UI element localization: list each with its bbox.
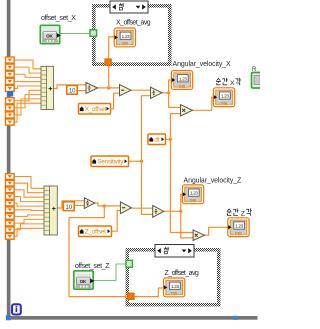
wire subtract2 output to divide2Z top input (131, 207, 152, 209)
indicator instant X angle label (216, 78, 240, 87)
indicator X_offset_avg label (116, 20, 151, 27)
indicator terminal Z_offset_avg (164, 278, 185, 297)
local variable X_offset (79, 104, 111, 115)
svg-text:offset_set_Z: offset_set_Z (75, 263, 110, 270)
svg-text:OK: OK (80, 279, 87, 284)
wire divide1 output to subtract1 top input (through node A junction) (98, 87, 120, 89)
indicator Angular_velocity_X label (173, 61, 232, 68)
svg-text:1.23: 1.23 (190, 191, 198, 196)
while loop bottom-left corner blue mark (6, 315, 11, 320)
divide node (Z sum / 10) (84, 198, 94, 209)
wire green offset_set_Z to case2 selector tunnel (94, 264, 127, 281)
wire dt local variable vertical feeding both multiply nodes (166, 114, 194, 233)
wire divide1Z output to subtract2 top input (through node C junction) (95, 203, 121, 206)
wire 10 constant X to divide1 bottom input (77, 90, 86, 92)
wire 10 constant Z to divide1Z bottom input (74, 204, 84, 206)
svg-text:DBL: DBL (121, 41, 130, 46)
control offset_set_Z label (75, 263, 110, 270)
orange tunnel on case1 bottom border (105, 59, 112, 66)
indicator terminal Angular_velocity_X (171, 71, 192, 90)
junction node B (Angular_velocity_X branch) (167, 91, 170, 94)
case structure 1 selector label (110, 1, 148, 13)
wire multiply2 output to instant Z angle indicator (205, 227, 228, 235)
svg-text:DBL: DBL (235, 231, 244, 236)
wire compound2 output to divide1Z top input (57, 201, 84, 208)
wire divide2Z output to node D junction (164, 210, 181, 212)
svg-text:X_offset_avg: X_offset_avg (116, 20, 151, 27)
indicator terminal X_offset_avg (114, 28, 135, 47)
wire node D down to multiply2 bottom input (181, 211, 193, 238)
svg-text:Sensitivity: Sensitivity (97, 159, 124, 166)
wire case2 tunnel to Z_offset_avg indicator (135, 288, 163, 297)
blue tunnel on while loop bottom border (234, 316, 238, 320)
svg-text:Angular_velocity_X: Angular_velocity_X (173, 61, 232, 68)
shift register stack X (left while-loop border) (6, 57, 15, 125)
case structure 1 frame (92, 4, 172, 66)
svg-text:1.23: 1.23 (122, 34, 130, 39)
indicator terminal instant Z angle (228, 218, 249, 237)
divide node (X sum / 10) (86, 83, 98, 94)
svg-text:1.23: 1.23 (179, 76, 187, 81)
case structure 2 frame (126, 248, 221, 307)
wire divide2X output to node B junction (162, 92, 169, 94)
control OK button offset_set_X (40, 25, 61, 43)
indicator terminal instant X angle (213, 88, 234, 107)
wire compound1 output to divide1 top input (54, 85, 87, 89)
local variable dt (148, 134, 166, 145)
wire Z_offset local variable to subtract2 bottom input (112, 211, 121, 232)
svg-text:Z_offset_avg: Z_offset_avg (165, 270, 199, 277)
numeric constant 10 (Z average divisor) (63, 202, 74, 211)
svg-text:Angular_velocity_Z: Angular_velocity_Z (184, 177, 243, 184)
green tunnel on case2 left border (selector input) (126, 260, 132, 267)
junction Sensitivity branch (140, 160, 143, 163)
svg-text:dt: dt (154, 137, 159, 144)
svg-text:DBL: DBL (190, 198, 199, 203)
wire multiply1 output to instant X angle indicator (193, 97, 214, 110)
indicator Z_offset_avg label (165, 270, 199, 277)
junction node D (Angular_velocity_Z branch) (179, 210, 182, 213)
multiply node (Z angular velocity x dt) (193, 230, 204, 241)
green tunnel on case1 left border (selector input) (90, 30, 97, 37)
wires shift register stack Z to compound arithmetic 2 inputs (14, 177, 44, 237)
wire node B down to multiply1 top input (169, 93, 181, 108)
svg-text:Z: Z (241, 210, 245, 217)
indicator instant Z angle label (227, 209, 251, 218)
svg-text:DBL: DBL (171, 291, 180, 296)
junction node C (Z average to case2/subtract2) (103, 204, 106, 207)
indicator Angular_velocity_Z label (184, 177, 243, 184)
case structure 2 selector label (155, 245, 194, 258)
local variable Z_offset (79, 226, 112, 237)
svg-text:1.23: 1.23 (235, 224, 243, 229)
control offset_set_X label (41, 15, 76, 22)
wire X_offset_avg indicator drop through case1 tunnel to node A (109, 37, 114, 88)
control OK button offset_set_Z (74, 271, 95, 289)
numeric constant 10 (X average divisor) (67, 85, 77, 94)
wire green offset_set_X to case1 selector tunnel (61, 33, 91, 35)
wires shift register stack X to compound arithmetic 1 inputs (14, 60, 41, 122)
indicator terminal Angular_velocity_Z (182, 185, 203, 204)
wire subtract1 output to divide2X top input (131, 89, 151, 91)
wire X_offset local variable to subtract1 bottom input (111, 93, 120, 109)
shift register stack Z (left while-loop border) (6, 174, 15, 240)
while loop bottom border (7, 316, 258, 320)
svg-text:10: 10 (66, 204, 73, 211)
svg-text:1.23: 1.23 (221, 94, 229, 99)
subtract node (X - X_offset) (120, 85, 132, 96)
orange tunnel on case2 left border (127, 293, 134, 300)
divide node (Z / Sensitivity) (153, 205, 164, 217)
svg-text:DBL: DBL (221, 101, 230, 106)
local variable Sensitivity (91, 156, 129, 167)
boolean control terminal at right edge (clipped) (252, 67, 262, 88)
svg-text:offset_set_X: offset_set_X (41, 15, 76, 22)
svg-text:DBL: DBL (179, 84, 188, 89)
blue shift register square (integer) (8, 91, 14, 97)
svg-text:10: 10 (69, 87, 76, 94)
divide node (X / Sensitivity) (151, 87, 163, 98)
wire Sensitivity vertical feeding both divide nodes (129, 96, 153, 215)
subtract node (Z - Z_offset) (120, 202, 131, 214)
wire node D up to Angular_velocity_Z indicator (181, 194, 183, 211)
junction node A (X average to case1/subtract1) (107, 86, 110, 89)
svg-text:X_offset: X_offset (85, 106, 107, 113)
compound arithmetic 2 (sum of 10 Z samples) (44, 186, 57, 235)
svg-text:1.23: 1.23 (171, 284, 179, 289)
wire node B up to Angular_velocity_X indicator (169, 80, 172, 93)
svg-text:Z_offset: Z_offset (85, 229, 106, 236)
svg-text:OK: OK (46, 34, 53, 39)
wire node C down around to case2 tunnel (69, 206, 128, 297)
svg-text:X: X (230, 80, 235, 87)
while loop iteration terminal i (12, 304, 21, 314)
junction dt branch (169, 138, 172, 141)
while loop left border (7, 0, 11, 320)
multiply node (X angular velocity x dt) (181, 105, 193, 116)
compound arithmetic 1 (sum of 10 X samples) (41, 66, 54, 109)
